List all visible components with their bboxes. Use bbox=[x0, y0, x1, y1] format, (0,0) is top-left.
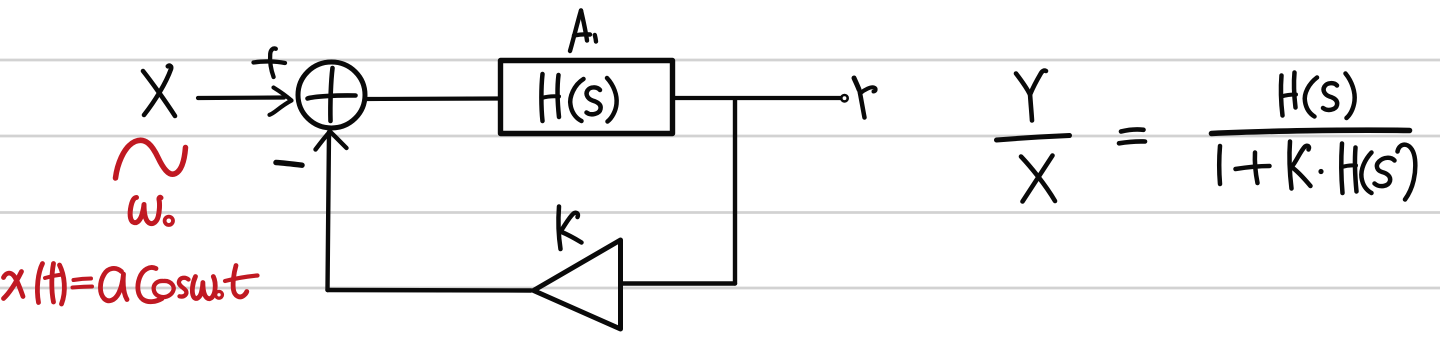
wire feedback: vertical up into summing junction with arrowhead bbox=[316, 132, 347, 291]
red formula x(t)=aCos(w0 t) bbox=[4, 264, 258, 305]
minus sign at feedback input bbox=[276, 163, 302, 166]
block H(s) rectangle bbox=[501, 61, 673, 134]
label H(s) inside block bbox=[541, 74, 616, 122]
equals sign bbox=[1119, 129, 1145, 143]
wire feedback: vertical drop from output node bbox=[733, 99, 737, 284]
node X input label bbox=[143, 66, 175, 116]
formula fraction bar bbox=[1212, 130, 1410, 133]
formula denominator 1+K·H(s) bbox=[1219, 142, 1415, 200]
red sine wave annotation bbox=[116, 140, 187, 178]
wire gain output to summing junction: bottom horizontal bbox=[328, 288, 532, 293]
plus sign at summing input bbox=[254, 48, 286, 77]
wire input arrow into summing junction bbox=[198, 88, 292, 115]
wire summing junction to H(s) block bbox=[365, 96, 500, 101]
gain amplifier K triangle bbox=[534, 240, 621, 329]
node Y output label bbox=[854, 78, 876, 118]
formula Y over X bbox=[997, 71, 1070, 202]
label A1 above block bbox=[570, 11, 596, 52]
red label omega0 bbox=[130, 197, 173, 225]
output terminal ring bbox=[841, 95, 847, 101]
wire H(s) output to terminal bbox=[673, 96, 841, 100]
label K bbox=[559, 207, 582, 250]
summing junction bbox=[298, 62, 365, 128]
ruled paper lines (background) bbox=[0, 60, 1440, 288]
formula numerator H(s) bbox=[1281, 73, 1355, 119]
wire feedback: horizontal into gain input bbox=[621, 281, 735, 285]
